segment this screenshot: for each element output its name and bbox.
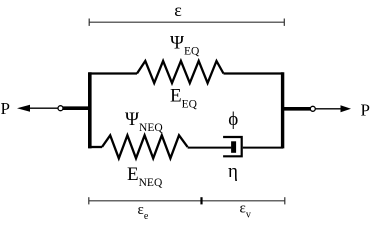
svg-text:ϕ: ϕ: [228, 109, 238, 130]
svg-text:P: P: [1, 99, 10, 118]
top dimension line (total strain): [89, 19, 284, 26]
svg-text:εv: εv: [240, 201, 251, 221]
spring E_EQ (equilibrium branch): [137, 61, 224, 83]
bottom dimension line (strain decomposition): [89, 197, 285, 204]
spring E_NEQ (non-equilibrium branch): [102, 135, 188, 158]
right force arrow shaft: [316, 108, 343, 110]
left force arrow shaft: [29, 107, 58, 109]
wire: left bar to top spring: [89, 72, 137, 74]
right thick link: bar to pin: [284, 107, 311, 111]
left pin circle: [58, 106, 63, 111]
svg-text:EEQ: EEQ: [170, 86, 198, 111]
svg-text:ΨNEQ: ΨNEQ: [125, 109, 163, 134]
right pin circle: [310, 106, 315, 111]
left rigid bar: [88, 72, 92, 148]
wire: dashpot to right bar: [243, 147, 283, 149]
svg-text:ENEQ: ENEQ: [127, 164, 163, 189]
left force arrowhead: [17, 105, 30, 112]
right rigid bar: [281, 72, 284, 148]
right force arrowhead: [341, 105, 352, 112]
svg-text:P: P: [361, 101, 370, 120]
left thick link: bar to pin: [63, 106, 90, 110]
wire: left bar to bottom spring: [89, 146, 102, 148]
wire: bottom spring to dashpot rod: [188, 147, 232, 149]
svg-text:ε: ε: [174, 0, 182, 20]
svg-text:ΨEQ: ΨEQ: [170, 33, 200, 58]
svg-text:εe: εe: [138, 202, 149, 222]
dashpot piston (filled): [231, 141, 236, 153]
svg-text:η: η: [228, 161, 238, 182]
middle tick of bottom dimension line: [200, 197, 202, 204]
dashpot cylinder (cup, opens left): [223, 137, 242, 156]
wire: top spring to right bar: [224, 72, 284, 74]
